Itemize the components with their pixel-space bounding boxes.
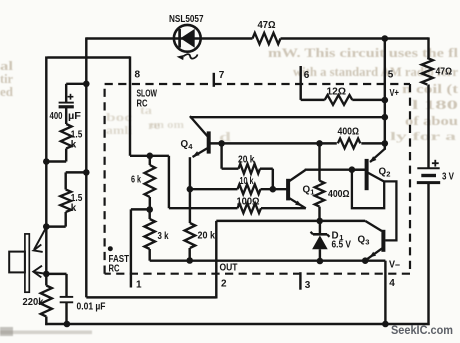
svg-text:47Ω: 47Ω [258,20,276,31]
svg-text:l 180: l 180 [412,98,458,112]
svg-text:RC: RC [137,98,148,109]
svg-text:k: k [71,203,77,214]
svg-text:tir: tir [0,72,13,86]
svg-text:NSL5057: NSL5057 [169,14,204,25]
svg-text:V–: V– [389,259,401,270]
svg-text:OUT: OUT [220,263,238,274]
svg-text:2: 2 [221,279,227,290]
svg-text:100Ω: 100Ω [237,196,260,207]
svg-text:SeekIC.com: SeekIC.com [391,324,453,337]
svg-text:of abou: of abou [405,114,458,128]
svg-text:un om: un om [150,119,184,131]
svg-text:Q: Q [303,184,311,195]
svg-text:6: 6 [304,70,310,81]
svg-text:8: 8 [135,69,141,80]
svg-text:1: 1 [136,280,142,291]
svg-text:6 k: 6 k [131,174,141,185]
svg-text:ly for a: ly for a [390,129,456,143]
svg-text:V+: V+ [390,88,400,99]
svg-text:ed: ed [0,85,13,99]
svg-text:3 k: 3 k [158,231,169,242]
svg-text:6.5 V: 6.5 V [332,240,352,251]
svg-text:20 k: 20 k [198,230,216,241]
svg-text:3: 3 [365,237,369,246]
svg-text:400Ω: 400Ω [338,127,360,138]
svg-text:RC: RC [109,263,120,274]
svg-text:Q: Q [379,166,387,177]
svg-text:k: k [71,139,77,150]
svg-text:20 k: 20 k [238,154,255,165]
svg-text:Q: Q [181,139,189,150]
svg-text:12Ω: 12Ω [327,86,347,97]
svg-text:400: 400 [50,111,63,122]
svg-text:5: 5 [388,69,394,80]
svg-text:µF: µF [68,111,81,122]
svg-text:220k: 220k [23,297,45,308]
svg-text:7: 7 [219,70,225,81]
svg-text:4: 4 [389,278,395,289]
svg-text:2: 2 [386,169,390,178]
svg-text:3: 3 [305,280,311,291]
svg-text:with a standard AM radio ferr: with a standard AM radio ferr [293,65,458,79]
svg-text:al: al [0,59,14,73]
svg-text:10 k: 10 k [240,176,254,187]
svg-text:0.01 µF: 0.01 µF [77,301,106,312]
svg-text:Q: Q [358,234,366,245]
svg-text:47Ω: 47Ω [436,66,453,77]
svg-text:400Ω: 400Ω [328,189,350,200]
svg-text:3 V: 3 V [442,171,454,182]
svg-text:boc: boc [106,112,132,124]
